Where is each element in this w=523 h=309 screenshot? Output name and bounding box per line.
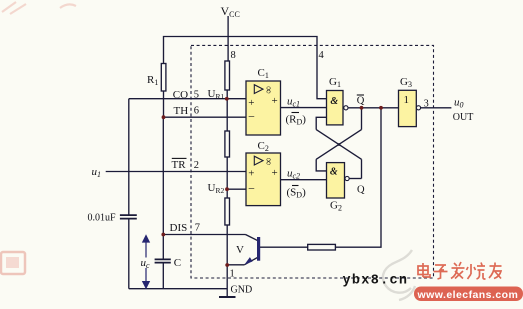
transistor V collector [246,235,259,241]
svg-text:Q: Q [357,185,365,196]
svg-text:1: 1 [230,269,235,280]
wire to G2 upper input [316,159,326,171]
transistor emitter arrow [245,257,253,264]
wire C bottom to rail [162,263,164,289]
resistor Rbase [308,244,336,250]
transistor V bar [257,237,260,261]
char 友 [489,263,502,279]
wire Qbar drop [361,108,363,130]
wire TH node down to cap C [162,117,164,260]
wire base drive [335,108,381,247]
svg-text:7: 7 [195,223,200,234]
wire DIS [163,234,245,236]
wire R1 bottom to TH node [163,91,165,117]
svg-text:DIS: DIS [170,222,188,234]
junction node TH [162,115,166,119]
svg-text:1: 1 [404,94,410,106]
resistor Ra (upper divider) [225,61,230,90]
svg-text:(RD): (RD) [286,114,307,127]
faint smudges [2,2,76,14]
svg-text:C: C [174,257,181,269]
watermark swirl [383,250,415,300]
wire diagonal G1 to G2out [316,130,361,160]
wire G1 cross stub [316,117,326,129]
junction node Qbar tap1 [360,106,364,110]
wire Rb to Rc [226,157,228,198]
junction node UR2 [225,187,229,191]
char 电 [418,263,430,277]
logo band [414,287,523,302]
svg-text:ybx8.cn: ybx8.cn [343,274,409,289]
nand gate G2 [327,163,350,198]
svg-text:+: + [271,167,277,179]
wire left branch down to 0.01uF [128,99,130,215]
wire divider to GND [226,225,228,297]
junction node Qbar tap2 [379,106,383,110]
resistor R1 [161,64,166,92]
wire Vcc lead [227,16,229,61]
junction node GND/emitter [225,263,229,267]
transistor V emitter [244,257,258,265]
wire u1 TR input [106,171,246,173]
ground bar [219,296,236,298]
wire Qbar net [348,107,399,109]
junction node UR1 [225,97,229,101]
wire TH [164,116,247,118]
svg-text:6: 6 [194,106,199,117]
char 发 [451,262,465,279]
svg-text:OUT: OUT [453,112,474,123]
svg-text:+: + [248,97,254,109]
wire UR2 to C2 [227,188,246,190]
wire base [260,246,308,248]
svg-text:∞: ∞ [262,158,273,166]
label uc [140,258,152,269]
wire G2 output [349,178,361,180]
nand gate G1 [327,91,349,125]
svg-text:+: + [248,168,254,180]
svg-text:Q: Q [357,96,365,107]
wire G2 out up [361,159,363,178]
wire 0.01uF bottom to rail [128,219,130,289]
svg-text:3: 3 [424,99,429,110]
svg-text:&: & [330,96,338,107]
voltage uc arrow [143,236,149,288]
wire CO pin5 [129,98,246,100]
comparator C1 [246,81,281,135]
logo chars: 电子发烧友 drawn as strokes [418,262,502,279]
wire diagonal Qbar to G2in [316,130,361,160]
wire G3 output [421,107,452,109]
svg-text:5: 5 [194,90,199,101]
junction node DIS [161,233,165,237]
wire Ra to Rb [226,90,228,131]
svg-text:&: & [330,166,338,177]
wire uc2 [281,179,327,181]
svg-text:TH: TH [174,105,189,117]
svg-text:GND: GND [231,284,253,295]
svg-text:www.elecfans.com: www.elecfans.com [417,289,519,301]
svg-text:−: − [248,182,255,196]
capacitor 0.01uF plates [120,214,137,216]
char 子 [434,265,448,279]
svg-text:∞: ∞ [262,86,273,94]
wire uc1 [281,107,327,109]
inverter G3 [399,90,421,126]
svg-text:0.01uF: 0.01uF [88,213,117,224]
wire bottom rail [129,288,227,290]
resistor Rc [225,198,230,225]
wire top rail [164,37,327,99]
svg-text:−: − [248,110,255,124]
svg-text:8: 8 [231,50,236,61]
capacitor C plates [155,258,171,260]
svg-text:2: 2 [194,160,199,171]
svg-text:+: + [271,95,277,107]
comparator C2 [246,153,281,206]
svg-text:CO: CO [173,89,188,101]
char 烧 [467,263,486,280]
svg-text:V: V [236,244,244,256]
resistor Rb [225,131,230,157]
555 dashed boundary [191,45,434,278]
wire emitter to gnd [227,264,244,266]
svg-text:4: 4 [319,50,325,61]
svg-text:TR: TR [172,159,187,171]
crossing of latch diagonals [338,143,341,146]
